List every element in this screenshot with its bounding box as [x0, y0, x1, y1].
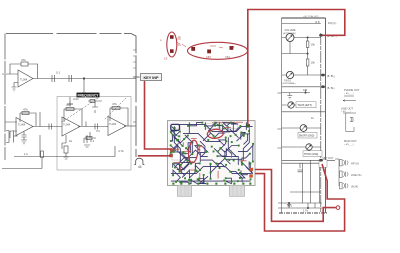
pcb pad 13: [213, 135, 215, 137]
pcb pad 68: [177, 139, 179, 141]
red annotation marks: [176, 39, 223, 48]
resistor R3: [64, 108, 76, 110]
component box outline: [319, 160, 327, 167]
svg-text:LINE OUT: LINE OUT: [341, 107, 353, 111]
svg-text:+ M (___): + M (___): [344, 93, 354, 95]
PCB wire pads (connection points): [246, 124, 250, 128]
pcb trace 54: [177, 164, 189, 170]
pcb silk mark 4: [174, 149, 179, 151]
pcb pad 56: [239, 177, 241, 179]
pcb pad 8: [227, 126, 229, 128]
pcb trace 61: [171, 131, 178, 136]
pcb silk mark 13: [217, 171, 219, 179]
wire bus A: [324, 18, 326, 213]
wire top bus: [6, 34, 136, 158]
pcb pad 46: [216, 163, 218, 165]
pcb pad 2: [201, 122, 203, 124]
silkscreen boxes: [172, 124, 238, 160]
annotation ellipse on PCB horizontal: [207, 129, 224, 139]
svg-text:TAOS (EXT.): TAOS (EXT.): [298, 103, 313, 107]
pcb trace 38: [180, 180, 191, 184]
jack J2: [335, 159, 339, 186]
svg-text:10k: 10k: [303, 88, 308, 92]
potentiometer VR2: [286, 71, 293, 78]
PCB mounting tab right: [230, 185, 245, 196]
pcb pad 32: [191, 153, 193, 155]
pcb pad 93: [197, 183, 199, 185]
red wire bus to PCB: [138, 155, 171, 157]
pcb pad 35: [205, 151, 207, 153]
right schematic tiny labels: [283, 15, 337, 213]
pcb pad 70: [231, 181, 233, 183]
pcb pad 84: [250, 178, 252, 180]
pcb pad 11: [187, 135, 189, 137]
jack shape: [350, 118, 353, 122]
pcb pad 21: [179, 131, 181, 133]
svg-text:THICK (GND): THICK (GND): [304, 154, 318, 156]
pcb trace 8: [208, 123, 216, 136]
pcb silk mark 14: [224, 127, 231, 129]
svg-text:TL064: TL064: [109, 122, 117, 126]
pcb pad 49: [179, 171, 181, 173]
pcb pad 53: [224, 158, 226, 160]
pcb pad 78: [176, 139, 178, 141]
pcb pad 99: [249, 183, 251, 185]
wire tick to bus: [133, 76, 140, 78]
pcb pad 10: [170, 140, 172, 142]
potentiometer VR5: [306, 144, 312, 150]
pcb trace 70: [223, 123, 232, 127]
pcb pad 75: [183, 138, 185, 140]
pcb pad 100: [174, 167, 176, 169]
svg-text:MAIN OUT: MAIN OUT: [344, 139, 357, 143]
svg-text:(EXTERNAL): (EXTERNAL): [283, 82, 296, 85]
pcb pad 63: [198, 178, 200, 180]
op-amp U1B: [16, 118, 33, 136]
pcb trace 24: [242, 154, 250, 165]
svg-text:TL064: TL064: [20, 78, 28, 82]
annotation ellipse small: [167, 32, 177, 57]
capacitor C20: [298, 163, 303, 172]
pcb trace 42: [224, 178, 231, 183]
pcb pad 27: [252, 161, 254, 163]
pcb pad 111: [174, 127, 176, 129]
svg-text:1 k: 1 k: [24, 152, 29, 156]
pcb trace 39: [190, 175, 203, 184]
pcb pad 7: [240, 125, 242, 127]
pcb trace 36: [240, 173, 245, 178]
pcb pad 29: [187, 160, 189, 162]
pcb pad 24: [238, 145, 240, 147]
pcb pad 25: [220, 147, 222, 149]
node tick: [133, 77, 139, 122]
pcb trace 62: [182, 154, 191, 163]
pcb pad 40: [241, 164, 243, 166]
pcb pad 52: [210, 172, 212, 174]
pcb pad 109: [198, 144, 200, 146]
pcb silk mark 12: [199, 173, 201, 180]
pcb pad 43: [192, 161, 194, 163]
pcb pad 94: [206, 183, 208, 185]
pcb trace 19: [191, 142, 193, 155]
pcb trace 3: [222, 125, 229, 132]
pcb pad 6: [230, 122, 232, 124]
pcb pad 17: [240, 132, 242, 134]
junction pads on bus: [319, 34, 322, 36]
pcb pad 79: [225, 164, 227, 166]
op-amp U1A input wires: [2, 74, 18, 87]
pcb pad 80: [225, 140, 227, 142]
red dot E: [230, 46, 234, 50]
pcb pad 105: [249, 163, 251, 165]
pcb pad 12: [170, 131, 172, 133]
pcb pad 112: [248, 130, 250, 132]
pcb pad 104: [238, 169, 240, 171]
label FREQUENCY: [77, 93, 100, 98]
resistor R9: [306, 41, 309, 48]
resistor R2: [20, 112, 30, 114]
capacitor C7 under U1B: [22, 132, 27, 140]
PCB board outline: [168, 121, 256, 186]
wire U2B out: [124, 125, 136, 127]
pcb pad 87: [207, 139, 209, 141]
red dot D: [207, 50, 211, 54]
pcb trace 21: [201, 152, 207, 157]
wire row met: [282, 160, 335, 163]
pcb trace 17: [171, 152, 188, 161]
wire inputs U1B: [6, 122, 18, 138]
pcb pad 51: [194, 170, 196, 172]
pcb pad 91: [180, 183, 182, 185]
svg-text:C54: C54: [225, 55, 230, 59]
wire second rail: [282, 23, 321, 25]
hatched supply: [279, 212, 327, 214]
pcb trace 55: [173, 164, 185, 176]
pcb pad 88: [188, 179, 190, 181]
wire row: [282, 53, 308, 55]
svg-text:10k: 10k: [311, 61, 316, 65]
pcb silk mark 7: [239, 160, 247, 162]
pcb pad 114: [219, 147, 221, 149]
wire bottom rows: [278, 203, 322, 208]
pcb pad 77: [217, 124, 219, 126]
pcb trace 73: [219, 140, 226, 146]
pcb pad 66: [223, 180, 225, 182]
pcb trace 29: [216, 163, 225, 167]
wire left rail: [281, 18, 283, 213]
pcb trace 51: [228, 138, 236, 157]
pcb pad 9: [172, 134, 174, 136]
wire bus B: [320, 33, 322, 213]
pcb pad 34: [180, 164, 182, 166]
pcb pad 55: [239, 172, 241, 174]
pcb trace 66: [215, 133, 225, 138]
label KEY INP: [141, 74, 162, 81]
jack J3: [340, 171, 349, 177]
pcb pad 15: [235, 134, 237, 136]
pcb pad 110: [214, 137, 216, 139]
pcb trace 52: [189, 123, 246, 134]
pcb pad 3: [204, 125, 206, 127]
svg-text:1 Ta: 1 Ta: [303, 209, 308, 213]
svg-text:TAOS: TAOS: [284, 79, 291, 83]
svg-text:44: 44: [138, 165, 142, 169]
switch S1: [6, 131, 14, 143]
pcb trace 26: [181, 162, 190, 171]
svg-text:0.01: 0.01: [73, 97, 79, 101]
pcb trace 10: [230, 129, 238, 137]
pcb pad 57: [175, 181, 177, 183]
pcb trace 33: [195, 165, 200, 171]
value labels left: [18, 58, 124, 156]
pcb trace 11: [237, 132, 246, 141]
pcb trace 25: [173, 164, 184, 170]
op-amp U2B: [108, 117, 126, 136]
wire branch down: [83, 79, 86, 97]
pcb pad 22: [190, 143, 192, 145]
pcb pad 86: [237, 180, 239, 182]
pcb pad 67: [225, 177, 227, 179]
svg-text:KEY INP: KEY INP: [143, 76, 159, 80]
pcb silk mark 1: [183, 150, 191, 152]
pcb pad 89: [188, 157, 190, 159]
pcb silk mark 6: [173, 162, 180, 164]
pcb pad 82: [209, 130, 211, 132]
pcb trace 18: [171, 146, 183, 153]
capacitor C6: [84, 135, 90, 147]
svg-text:(B. BL): (B. BL): [327, 75, 335, 78]
svg-text:SHORT (GND): SHORT (GND): [299, 136, 314, 138]
pcb trace 71: [185, 135, 193, 151]
svg-text:C5: C5: [164, 57, 168, 61]
pcb pad 37: [225, 137, 227, 139]
resistor R4: [110, 107, 122, 109]
pcb pad 113: [184, 153, 186, 155]
potentiometer VR1: [286, 34, 294, 42]
pcb pad 4: [215, 122, 217, 124]
pcb pad 106: [178, 135, 180, 137]
ground: [12, 87, 17, 91]
pcb pad 36: [217, 151, 219, 153]
potentiometer VR3: [288, 102, 294, 108]
pcb trace 6: [171, 135, 173, 141]
pcb trace 67: [244, 134, 248, 144]
pcb trace 12: [171, 145, 176, 150]
pcb trace 35: [230, 172, 242, 182]
pcb pad 71: [211, 146, 213, 148]
bus tick marks: [133, 50, 137, 68]
pcb pad 20: [182, 145, 184, 147]
wire row: [282, 86, 325, 88]
pcb pad 58: [172, 174, 174, 176]
pcb trace 47: [243, 129, 249, 161]
svg-text:1k: 1k: [69, 139, 73, 143]
pcb pad 92: [188, 183, 190, 185]
svg-text:MET OUT: MET OUT: [323, 157, 334, 160]
capacitor C1: [52, 75, 55, 82]
pcb pad 108: [228, 159, 230, 161]
pcb pad 72: [210, 163, 212, 165]
pcb trace 72: [195, 146, 208, 153]
pcb trace 32: [179, 163, 181, 171]
pcb pad 47: [241, 161, 243, 163]
svg-text:+(4) TO AL (4V): +(4) TO AL (4V): [303, 15, 319, 18]
pcb trace 44: [171, 180, 250, 182]
pcb pad 98: [242, 183, 244, 185]
pcb trace 34: [211, 158, 225, 172]
pcb pad 23: [185, 147, 187, 149]
svg-text:C52: C52: [206, 55, 211, 59]
ground: [287, 93, 292, 99]
frequency section box: [57, 97, 131, 171]
pcb trace 40: [198, 179, 204, 184]
pcb pad 39: [249, 153, 251, 155]
pcb pad 50: [199, 169, 201, 171]
svg-text:47k: 47k: [112, 102, 117, 106]
pcb trace 64: [238, 145, 253, 151]
pcb silk mark 8: [199, 145, 201, 153]
label box TAOS: [296, 102, 316, 108]
pcb pad 90: [172, 183, 174, 185]
resistor R10: [306, 59, 309, 66]
pcb trace 63: [226, 158, 241, 160]
pcb trace 13: [174, 132, 182, 146]
capacitor C5: [95, 124, 98, 130]
pcb trace 23: [217, 149, 232, 157]
stub: [278, 93, 282, 148]
pcb pad 73: [233, 160, 235, 162]
pcb trace 43: [171, 125, 252, 132]
pcb trace 20: [181, 150, 201, 165]
op-amp U2A: [62, 117, 80, 136]
pcb pad 60: [190, 179, 192, 181]
svg-text:+ M (___): + M (___): [341, 111, 351, 113]
pcb trace 31: [242, 162, 251, 171]
pcb pad 85: [173, 150, 175, 152]
IC outline top-left: [171, 124, 180, 130]
pcb pad 18: [170, 144, 172, 146]
pcb pad 41: [172, 163, 174, 165]
wire U1A output: [33, 78, 136, 80]
pcb trace 41: [210, 164, 212, 179]
annotation ellipse on PCB vertical: [188, 140, 199, 163]
pcb trace 5: [228, 126, 241, 131]
pcb pad 38: [217, 155, 219, 157]
wire lower rail 2: [2, 158, 42, 169]
red wire PCB to top-right loop: [248, 10, 345, 126]
wire phone out: [343, 96, 356, 101]
pcb pad 69: [230, 135, 232, 137]
pcb pad 95: [215, 183, 217, 185]
wire lower rail: [14, 135, 115, 157]
svg-text:47k: 47k: [23, 108, 28, 112]
wire row short: [282, 90, 310, 93]
pcb pad 54: [229, 171, 231, 173]
pcb trace 49: [214, 149, 238, 165]
pcb silk mark 10: [180, 167, 182, 171]
svg-text:47k: 47k: [66, 103, 71, 107]
jack J4: [340, 183, 349, 189]
PCB pads: [170, 122, 254, 185]
pcb trace 9: [215, 126, 223, 134]
wire row: [290, 191, 320, 193]
pcb pad 14: [214, 125, 216, 127]
pcb trace 1: [188, 123, 202, 126]
pcb pad 44: [199, 162, 201, 164]
wire line out: [343, 113, 356, 132]
resistor R6 cluster: [88, 101, 102, 113]
svg-text:+ M (___): + M (___): [344, 144, 354, 146]
pcb pad 83: [243, 135, 245, 137]
resistor R5 under U2A: [62, 135, 66, 149]
pcb silk mark 5: [182, 142, 184, 147]
pcb trace 37: [173, 170, 180, 182]
pcb pad 31: [170, 152, 172, 154]
pcb pad 26: [252, 143, 254, 145]
capacitor C2: [69, 75, 72, 82]
pcb pad 19: [170, 149, 172, 151]
wire row: [282, 111, 325, 113]
pcb trace 30: [225, 151, 230, 164]
pcb pad 33: [191, 141, 193, 143]
pcb silk mark 3: [190, 169, 195, 171]
pcb pad 48: [179, 169, 181, 171]
pcb trace 65: [198, 141, 205, 152]
pcb trace 56: [182, 170, 197, 178]
pcb trace 53: [172, 134, 210, 162]
pcb pad 65: [210, 163, 212, 165]
pcb silk mark 9: [199, 146, 203, 148]
pcb trace 7: [171, 132, 188, 143]
red wire PCB outer bottom loop: [255, 164, 345, 231]
pcb trace 58: [201, 160, 219, 167]
pcb pad 1: [187, 125, 189, 127]
pcb pad 42: [180, 170, 182, 172]
resistor R1 feedback: [10, 64, 38, 79]
red dot B: [170, 49, 174, 53]
pcb silk mark 2: [231, 151, 233, 158]
red dot A: [170, 35, 174, 39]
connector J1: [134, 158, 144, 164]
pcb pad 28: [173, 151, 175, 153]
label box THICK: [303, 151, 322, 157]
annotation ellipse big: [188, 42, 248, 59]
svg-text:VOLUME: VOLUME: [285, 28, 296, 32]
svg-text:TL064: TL064: [18, 123, 26, 127]
terminal ring: [336, 206, 340, 210]
pcb pad 16: [243, 133, 245, 135]
svg-text:10k: 10k: [311, 43, 316, 47]
pcb pad 76: [231, 141, 233, 143]
pcb trace 46: [174, 127, 180, 163]
wire top rail: [282, 17, 326, 19]
pcb pad 103: [219, 167, 221, 169]
svg-text:TL064: TL064: [63, 123, 71, 127]
svg-text:HP OU: HP OU: [351, 162, 359, 166]
pcb trace 57: [199, 177, 208, 184]
pcb pad 62: [197, 178, 199, 180]
pcb trace 45: [171, 167, 251, 174]
svg-text:FREQUENCY: FREQUENCY: [78, 93, 100, 97]
red wire PCB inner bottom loop: [255, 170, 336, 222]
pcb trace 50: [176, 158, 196, 166]
wire U1B out: [33, 112, 62, 127]
svg-text:0.1: 0.1: [90, 139, 95, 143]
pcb silk mark 11: [191, 137, 197, 139]
pcb trace 69: [241, 134, 250, 139]
pcb trace 4: [231, 123, 238, 125]
PCB copper traces: [171, 123, 253, 184]
